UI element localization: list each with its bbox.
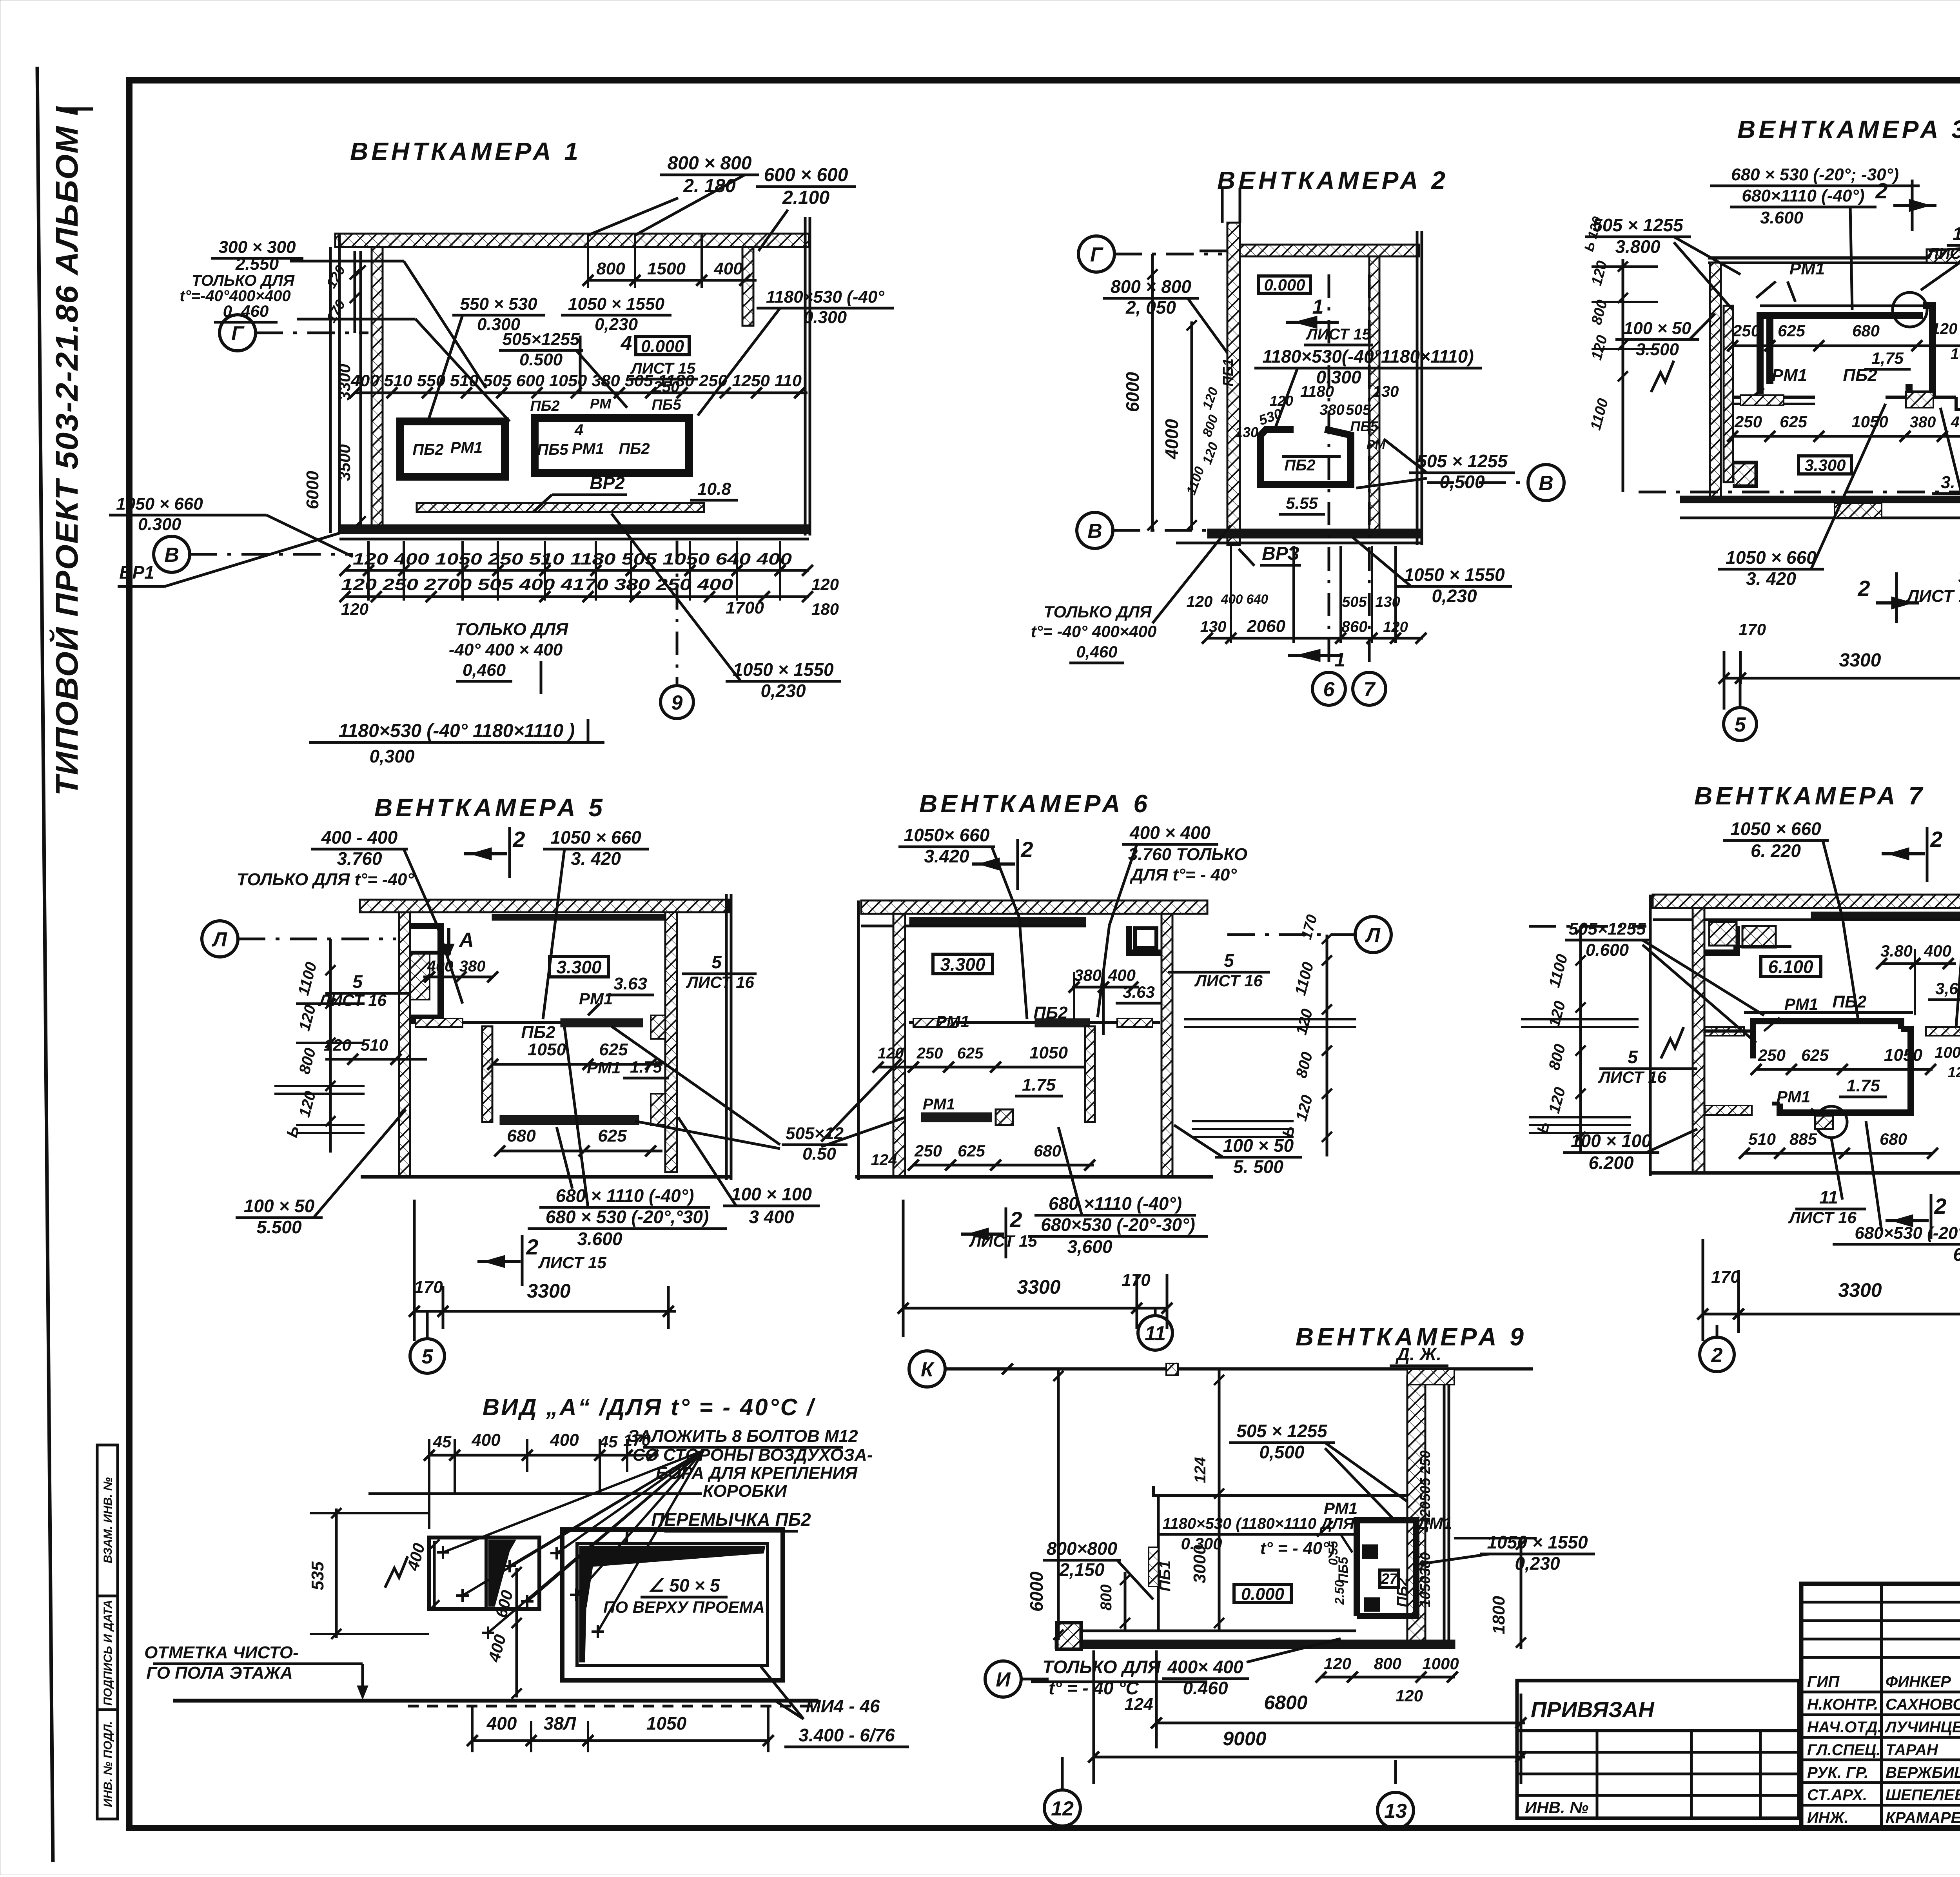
svg-text:3. 420: 3. 420 bbox=[571, 848, 621, 869]
vk9 floor band bbox=[1055, 1640, 1455, 1649]
svg-text:РМ1: РМ1 bbox=[1784, 995, 1818, 1013]
vk7 closet top-left bbox=[1704, 926, 1737, 953]
svg-text:ВЕНТКАМЕРА 7: ВЕНТКАМЕРА 7 bbox=[1694, 782, 1926, 810]
svg-text:ЛИСТ 16: ЛИСТ 16 bbox=[1788, 1208, 1857, 1227]
svg-text:1000: 1000 bbox=[1951, 345, 1960, 363]
svg-text:170: 170 bbox=[1711, 1267, 1740, 1287]
svg-text:3000: 3000 bbox=[1190, 1545, 1209, 1583]
svg-text:ПБ5: ПБ5 bbox=[537, 441, 568, 458]
svg-text:505: 505 bbox=[1342, 594, 1367, 610]
svg-text:1.75: 1.75 bbox=[1022, 1075, 1056, 1095]
svg-text:1050: 1050 bbox=[528, 1040, 566, 1059]
vk3 mid band bbox=[1733, 396, 1815, 399]
svg-text:3.63: 3.63 bbox=[613, 974, 647, 993]
vidA left square opening bbox=[429, 1538, 539, 1609]
svg-text:625: 625 bbox=[1801, 1046, 1829, 1064]
vk7 axis circle 2 bbox=[1702, 1314, 1704, 1325]
svg-text:1.75: 1.75 bbox=[1846, 1076, 1880, 1095]
svg-text:5.55: 5.55 bbox=[1286, 494, 1318, 512]
svg-text:ЛИСТ 15: ЛИСТ 15 bbox=[969, 1232, 1037, 1250]
svg-text:ПБ2: ПБ2 bbox=[1033, 1003, 1068, 1022]
svg-text:625: 625 bbox=[1780, 412, 1808, 431]
svg-text:1000: 1000 bbox=[1935, 1044, 1960, 1061]
vk1 top wall bbox=[335, 234, 809, 247]
svg-text:45: 45 bbox=[433, 1432, 452, 1451]
svg-text:12: 12 bbox=[1051, 1797, 1074, 1820]
svg-text:ГИП: ГИП bbox=[1807, 1673, 1840, 1690]
svg-text:2.100: 2.100 bbox=[782, 187, 829, 208]
vk3 left wall bbox=[1710, 263, 1721, 498]
svg-text:ПБ2: ПБ2 bbox=[1394, 1577, 1411, 1607]
vk9 level box bbox=[1234, 1585, 1291, 1603]
svg-text:3.760 ТОЛЬКО: 3.760 ТОЛЬКО bbox=[1128, 845, 1247, 864]
svg-text:3300: 3300 bbox=[1017, 1276, 1060, 1298]
svg-text:РМ1: РМ1 bbox=[579, 989, 613, 1008]
vk1 axis V bbox=[154, 536, 190, 572]
svg-text:ПБ1: ПБ1 bbox=[1220, 358, 1236, 386]
vk3 top wall hatch right bbox=[1927, 249, 1960, 263]
vk1 inner closet bbox=[400, 421, 505, 477]
svg-text:2: 2 bbox=[1875, 178, 1887, 203]
svg-text:124: 124 bbox=[1124, 1695, 1153, 1714]
svg-text:4: 4 bbox=[621, 332, 632, 355]
svg-text:ФИНКЕР: ФИНКЕР bbox=[1886, 1673, 1951, 1690]
svg-text:1180×530 (-40° 1180×1110 ): 1180×530 (-40° 1180×1110 ) bbox=[339, 721, 575, 741]
svg-text:380: 380 bbox=[1319, 402, 1344, 418]
svg-text:6.400: 6.400 bbox=[1953, 1244, 1960, 1265]
svg-text:0.500: 0.500 bbox=[519, 350, 563, 369]
svg-text:КОРОБКИ: КОРОБКИ bbox=[703, 1481, 787, 1501]
svg-text:2.50: 2.50 bbox=[1332, 1580, 1347, 1605]
svg-text:0,500: 0,500 bbox=[1439, 472, 1485, 492]
svg-text:РМ1: РМ1 bbox=[587, 1058, 621, 1077]
vk1 axis G bbox=[220, 315, 256, 351]
svg-text:ДЛЯ t°= - 40°: ДЛЯ t°= - 40° bbox=[1129, 865, 1237, 884]
svg-text:ТОЛЬКО ДЛЯ: ТОЛЬКО ДЛЯ bbox=[192, 272, 295, 289]
svg-text:680: 680 bbox=[1852, 321, 1880, 340]
svg-text:1180×530 (-40°: 1180×530 (-40° bbox=[766, 287, 884, 307]
svg-text:2: 2 bbox=[1930, 827, 1942, 851]
svg-text:5: 5 bbox=[1628, 1047, 1638, 1067]
svg-text:400× 400: 400× 400 bbox=[1167, 1657, 1243, 1677]
svg-text:ТИПОВОЙ ПРОЕКТ 503-2-21.86: ТИПОВОЙ ПРОЕКТ 503-2-21.86 АЛЬБОМ I bbox=[49, 106, 84, 796]
svg-text:120: 120 bbox=[811, 575, 839, 594]
svg-text:ВЕНТКАМЕРА 3: ВЕНТКАМЕРА 3 bbox=[1737, 115, 1960, 143]
svg-text:400: 400 bbox=[471, 1430, 501, 1450]
vk7 left wall bbox=[1693, 908, 1704, 1173]
svg-text:6.200: 6.200 bbox=[1588, 1153, 1634, 1173]
vk5 closet top-left bbox=[410, 926, 441, 1018]
svg-text:180: 180 bbox=[811, 600, 839, 618]
svg-text:0.000: 0.000 bbox=[641, 337, 684, 356]
svg-text:130: 130 bbox=[1235, 424, 1258, 440]
svg-text:3300: 3300 bbox=[1839, 650, 1881, 671]
svg-text:120: 120 bbox=[1324, 1654, 1351, 1673]
vidA fan leader lines bbox=[443, 1450, 704, 1552]
svg-text:680: 680 bbox=[507, 1126, 536, 1145]
svg-text:ЛИСТ 16: ЛИСТ 16 bbox=[686, 973, 754, 991]
svg-text:0.000: 0.000 bbox=[1241, 1585, 1285, 1604]
svg-text:400: 400 bbox=[1924, 942, 1951, 960]
svg-text:170: 170 bbox=[1739, 620, 1766, 639]
svg-text:505 × 1255: 505 × 1255 bbox=[1417, 451, 1508, 471]
svg-text:t° = - 40°): t° = - 40°) bbox=[1260, 1539, 1335, 1558]
svg-text:38Л: 38Л bbox=[544, 1713, 577, 1734]
svg-text:3300: 3300 bbox=[1838, 1279, 1882, 1301]
svg-text:800: 800 bbox=[596, 259, 625, 278]
vk7 left boundary bbox=[1649, 895, 1652, 1176]
svg-text:ЛИСТ 15: ЛИСТ 15 bbox=[538, 1253, 606, 1272]
svg-text:РМ1: РМ1 bbox=[1324, 1499, 1357, 1518]
svg-text:ВЕНТКАМЕРА 6: ВЕНТКАМЕРА 6 bbox=[919, 790, 1151, 818]
vk3 axis line and circle 8 bbox=[1639, 491, 1960, 494]
svg-text:505 × 1255: 505 × 1255 bbox=[1236, 1421, 1328, 1441]
svg-text:2: 2 bbox=[526, 1234, 538, 1259]
svg-text:ВЗАМ. ИНВ. №: ВЗАМ. ИНВ. № bbox=[102, 1477, 114, 1563]
svg-text:2,150: 2,150 bbox=[1059, 1559, 1105, 1580]
svg-text:4: 4 bbox=[574, 421, 583, 439]
svg-text:1050× 660: 1050× 660 bbox=[904, 825, 990, 845]
svg-text:1050 × 1550: 1050 × 1550 bbox=[1487, 1532, 1588, 1552]
svg-text:120 250 2700 505 400: 120 250 2700 505 400 4170 380 250 400 bbox=[341, 575, 733, 594]
vk5 right boundary bbox=[725, 894, 728, 1180]
svg-text:3.80: 3.80 bbox=[1880, 942, 1913, 960]
svg-text:ПБ2: ПБ2 bbox=[530, 398, 559, 414]
svg-text:-40° 400 × 400: -40° 400 × 400 bbox=[449, 640, 563, 659]
vk7 detail circle small bbox=[1816, 1106, 1847, 1138]
svg-text:625: 625 bbox=[598, 1126, 627, 1145]
svg-text:625: 625 bbox=[957, 1045, 984, 1062]
svg-text:ИНЖ.: ИНЖ. bbox=[1807, 1809, 1849, 1826]
svg-text:0,460: 0,460 bbox=[1076, 643, 1117, 661]
svg-text:510: 510 bbox=[1748, 1130, 1776, 1148]
vk3 small corner bbox=[1733, 463, 1756, 486]
svg-text:505×1255: 505×1255 bbox=[503, 330, 580, 349]
album I underline bbox=[63, 107, 93, 111]
svg-text:11: 11 bbox=[1145, 1322, 1166, 1345]
svg-text:t°= -40° 400×400: t°= -40° 400×400 bbox=[1031, 622, 1157, 641]
svg-text:2: 2 bbox=[1009, 1207, 1022, 1232]
svg-text:3.420: 3.420 bbox=[924, 846, 969, 866]
vk9 axis circle 12 bbox=[1061, 1757, 1064, 1790]
svg-text:2: 2 bbox=[1020, 837, 1033, 862]
svg-text:КРАМАРЕНКО: КРАМАРЕНКО bbox=[1886, 1809, 1960, 1826]
svg-text:ТОЛЬКО ДЛЯ: ТОЛЬКО ДЛЯ bbox=[1044, 603, 1152, 621]
vk7 level box bbox=[1761, 957, 1821, 977]
svg-text:625: 625 bbox=[599, 1040, 628, 1059]
vk6 bottom line bbox=[855, 1175, 1213, 1179]
svg-text:3 400: 3 400 bbox=[749, 1207, 794, 1227]
svg-text:400: 400 bbox=[486, 1713, 517, 1734]
vk6 level box bbox=[933, 954, 993, 974]
svg-text:400: 400 bbox=[1108, 966, 1136, 984]
svg-text:680 × 1110 (-40°): 680 × 1110 (-40°) bbox=[556, 1185, 694, 1206]
svg-text:250: 250 bbox=[914, 1142, 942, 1160]
svg-text:ВР2: ВР2 bbox=[590, 473, 625, 493]
svg-text:120: 120 bbox=[1270, 393, 1293, 409]
svg-text:3.800: 3.800 bbox=[1615, 236, 1661, 257]
vk5 right wall inner hatch bbox=[651, 1015, 665, 1039]
svg-text:0,300: 0,300 bbox=[369, 746, 415, 766]
svg-text:120: 120 bbox=[1947, 1064, 1960, 1081]
svg-text:5: 5 bbox=[1735, 713, 1746, 736]
privyazan table bbox=[1517, 1681, 1799, 1818]
svg-text:800 × 800: 800 × 800 bbox=[668, 153, 752, 174]
vk1 inner duct bbox=[535, 418, 689, 473]
svg-text:11: 11 bbox=[1953, 223, 1960, 244]
vk1 left wall bbox=[372, 247, 383, 528]
vk2 top wall bbox=[1227, 245, 1419, 256]
svg-text:505: 505 bbox=[1417, 1478, 1433, 1501]
svg-text:400 × 400: 400 × 400 bbox=[1129, 822, 1210, 843]
svg-text:РМ: РМ bbox=[590, 396, 612, 412]
vk3 right step wall bbox=[1956, 397, 1960, 486]
svg-text:1050: 1050 bbox=[646, 1713, 687, 1734]
svg-text:120: 120 bbox=[341, 600, 368, 618]
svg-text:3.600: 3.600 bbox=[577, 1229, 622, 1249]
vk5 partition bbox=[410, 1021, 643, 1024]
svg-text:ЛИСТ 15: ЛИСТ 15 bbox=[630, 360, 695, 377]
svg-text:3300: 3300 bbox=[335, 364, 354, 400]
svg-text:800: 800 bbox=[1098, 1585, 1115, 1611]
svg-text:2: 2 bbox=[512, 827, 525, 851]
svg-text:45: 45 bbox=[599, 1432, 618, 1451]
title block outer bbox=[1801, 1584, 1960, 1828]
svg-text:1050 × 660: 1050 × 660 bbox=[1726, 547, 1817, 568]
svg-text:1050 × 660: 1050 × 660 bbox=[1730, 819, 1821, 839]
vk7 partition stubs bbox=[1705, 1027, 1744, 1036]
svg-text:885: 885 bbox=[1789, 1130, 1817, 1148]
vk1 bottom floor band bbox=[339, 525, 809, 534]
svg-text:ПЕРЕМЫЧКА ПБ2: ПЕРЕМЫЧКА ПБ2 bbox=[651, 1509, 811, 1530]
svg-text:ТОЛЬКО ДЛЯ: ТОЛЬКО ДЛЯ bbox=[455, 620, 568, 639]
svg-text:ПБ2: ПБ2 bbox=[1843, 366, 1877, 385]
svg-text:3.300: 3.300 bbox=[940, 954, 985, 975]
svg-text:ЛИСТ 15: ЛИСТ 15 bbox=[1906, 586, 1960, 606]
svg-text:1000: 1000 bbox=[1422, 1654, 1459, 1673]
svg-text:1050 × 1550: 1050 × 1550 bbox=[1404, 565, 1505, 585]
svg-text:В: В bbox=[164, 544, 179, 566]
svg-text:11: 11 bbox=[1819, 1187, 1838, 1207]
svg-text:10.8: 10.8 bbox=[697, 479, 731, 499]
svg-text:ПБ2: ПБ2 bbox=[412, 441, 443, 458]
svg-text:ПО ВЕРХУ ПРОЕМА: ПО ВЕРХУ ПРОЕМА bbox=[603, 1598, 765, 1616]
svg-text:3.300: 3.300 bbox=[1804, 456, 1846, 474]
svg-text:Д. Ж.: Д. Ж. bbox=[1395, 1344, 1441, 1364]
svg-text:ВР1: ВР1 bbox=[119, 562, 154, 583]
svg-text:1050: 1050 bbox=[1417, 1576, 1433, 1607]
svg-text:625: 625 bbox=[958, 1142, 985, 1160]
vk3 axis circle 5 bbox=[1739, 678, 1742, 707]
svg-text:1,75: 1,75 bbox=[1871, 349, 1904, 367]
svg-text:1800: 1800 bbox=[1489, 1596, 1508, 1634]
svg-text:0.300: 0.300 bbox=[138, 515, 181, 534]
svg-text:Г: Г bbox=[1090, 243, 1103, 266]
svg-text:ЛИСТ 16: ЛИСТ 16 bbox=[1598, 1068, 1666, 1086]
svg-text:680×1110 (-40°): 680×1110 (-40°) bbox=[1742, 186, 1864, 205]
svg-text:РМ1: РМ1 bbox=[1772, 366, 1807, 385]
svg-text:6000: 6000 bbox=[1026, 1571, 1047, 1612]
svg-text:380: 380 bbox=[459, 958, 486, 975]
svg-text:3300: 3300 bbox=[527, 1280, 570, 1302]
svg-text:ГО ПОЛА ЭТАЖА: ГО ПОЛА ЭТАЖА bbox=[146, 1663, 293, 1683]
svg-text:0,460: 0,460 bbox=[463, 661, 506, 680]
svg-text:1500: 1500 bbox=[647, 259, 686, 278]
svg-text:СО СТОРОНЫ ВОЗДУХОЗА-: СО СТОРОНЫ ВОЗДУХОЗА- bbox=[633, 1445, 873, 1465]
svg-text:120 400 1050 250 510 11: 120 400 1050 250 510 1180 505 1050 640 4… bbox=[353, 550, 792, 568]
svg-text:2.550: 2.550 bbox=[235, 254, 279, 274]
left attribute column box bbox=[97, 1445, 118, 1819]
vk5 duct wall vertical bbox=[482, 1026, 492, 1122]
svg-text:Н.КОНТР.: Н.КОНТР. bbox=[1807, 1696, 1878, 1713]
vk5 bottom line bbox=[361, 1175, 731, 1179]
title block signature grid bbox=[1880, 1584, 1883, 1828]
svg-text:И: И bbox=[996, 1668, 1011, 1691]
svg-text:0.460: 0.460 bbox=[1183, 1678, 1228, 1698]
svg-text:120: 120 bbox=[1396, 1686, 1423, 1705]
svg-text:ОТМЕТКА ЧИСТО-: ОТМЕТКА ЧИСТО- bbox=[144, 1643, 299, 1662]
svg-text:3.300: 3.300 bbox=[556, 957, 602, 977]
svg-text:В: В bbox=[1087, 520, 1102, 543]
svg-text:250: 250 bbox=[1417, 1450, 1433, 1474]
svg-text:9000: 9000 bbox=[1223, 1728, 1266, 1750]
svg-text:1180×530(-40°1180×1110): 1180×530(-40°1180×1110) bbox=[1262, 346, 1474, 367]
vk1 right boundary bbox=[804, 217, 807, 536]
vk5 duct bottom slab bbox=[500, 1115, 639, 1125]
svg-text:ШЕПЕЛЕВА: ШЕПЕЛЕВА bbox=[1886, 1786, 1960, 1804]
svg-text:6.100: 6.100 bbox=[1768, 957, 1813, 977]
svg-text:2, 050: 2, 050 bbox=[1125, 297, 1176, 318]
svg-text:2: 2 bbox=[1934, 1194, 1946, 1218]
svg-text:ИНВ. №: ИНВ. № bbox=[1525, 1798, 1588, 1817]
svg-text:ТОЛЬКО ДЛЯ t°= -40°: ТОЛЬКО ДЛЯ t°= -40° bbox=[237, 870, 414, 889]
svg-text:9: 9 bbox=[671, 692, 683, 714]
svg-text:5: 5 bbox=[352, 971, 363, 992]
vk5 top wall bbox=[360, 900, 729, 912]
svg-text:100 × 50: 100 × 50 bbox=[1624, 319, 1691, 338]
svg-text:400 640: 400 640 bbox=[1221, 592, 1268, 607]
svg-text:ПБ2: ПБ2 bbox=[1832, 992, 1867, 1011]
vk2 dim extension lines bbox=[1230, 546, 1232, 643]
vk9 axis circle 13 bbox=[1377, 1792, 1414, 1828]
vk3 inner duct П bbox=[1760, 316, 1770, 394]
svg-text:ВЕНТКАМЕРА 5: ВЕНТКАМЕРА 5 bbox=[374, 793, 606, 822]
svg-text:0,230: 0,230 bbox=[1432, 586, 1477, 606]
svg-text:РМ1: РМ1 bbox=[1789, 259, 1825, 278]
vk5 right wall bbox=[665, 912, 677, 1172]
svg-text:ВЕНТКАМЕРА 1: ВЕНТКАМЕРА 1 bbox=[350, 137, 581, 165]
svg-text:380: 380 bbox=[1910, 414, 1936, 431]
svg-text:К: К bbox=[921, 1358, 935, 1381]
svg-text:3500: 3500 bbox=[335, 444, 354, 481]
svg-text:1050: 1050 bbox=[1029, 1043, 1068, 1062]
vk7 duct ring bbox=[1753, 1021, 1901, 1058]
svg-text:ВЕНТКАМЕРА 2: ВЕНТКАМЕРА 2 bbox=[1217, 166, 1448, 194]
vk2 right wall bbox=[1369, 256, 1379, 536]
vk5 left wall bbox=[399, 912, 410, 1176]
vk9 axis I circle bbox=[985, 1661, 1021, 1697]
vk2 bottom wall bbox=[1207, 529, 1423, 538]
svg-text:ПБ2: ПБ2 bbox=[1284, 457, 1315, 474]
svg-text:3. 420: 3. 420 bbox=[1746, 568, 1796, 589]
vk9 room top edge bbox=[1153, 1486, 1407, 1496]
svg-text:680×530 (-20°,-30°) 680×1100 (: 680×530 (-20°,-30°) 680×1100 (-40°) bbox=[1855, 1223, 1960, 1243]
svg-text:ПБ5: ПБ5 bbox=[652, 397, 681, 413]
vk1 axis circle 9 bbox=[676, 541, 679, 684]
svg-text:НАЧ.ОТД.: НАЧ.ОТД. bbox=[1807, 1719, 1882, 1736]
vk6 left wall bbox=[893, 914, 905, 1176]
svg-text:Л: Л bbox=[1365, 924, 1381, 947]
svg-text:ТАРАН: ТАРАН bbox=[1886, 1741, 1938, 1759]
svg-text:800 × 800: 800 × 800 bbox=[1111, 276, 1191, 297]
svg-text:130: 130 bbox=[1200, 618, 1227, 635]
svg-text:3.760 (ТОЛЬКО: 3.760 (ТОЛЬКО bbox=[1958, 567, 1960, 586]
svg-text:ЛИСТ 16: ЛИСТ 16 bbox=[1194, 971, 1263, 990]
svg-text:САХНОВСКАЯ: САХНОВСКАЯ bbox=[1886, 1696, 1960, 1713]
vk9 inner duct bbox=[1357, 1520, 1416, 1616]
vk7 top wall bbox=[1653, 895, 1960, 908]
svg-text:0.300: 0.300 bbox=[804, 308, 847, 327]
vk6 left boundary bbox=[857, 900, 860, 1180]
svg-text:5: 5 bbox=[422, 1345, 434, 1368]
svg-text:1050: 1050 bbox=[1851, 412, 1888, 431]
svg-text:3,600: 3,600 bbox=[1067, 1236, 1112, 1257]
svg-text:ПБ1: ПБ1 bbox=[1156, 1560, 1174, 1591]
paper left edge bbox=[37, 67, 53, 1862]
svg-text:505×1255: 505×1255 bbox=[1569, 919, 1646, 938]
vk7 bottom line bbox=[1649, 1171, 1960, 1175]
vk6 label 505x1255 left bbox=[821, 1058, 902, 1142]
svg-text:680 × 530 (-20°,°30): 680 × 530 (-20°,°30) bbox=[546, 1207, 709, 1227]
svg-text:Л: Л bbox=[211, 928, 227, 951]
svg-text:РМ1: РМ1 bbox=[923, 1096, 955, 1113]
vk2 axis V right bbox=[1528, 465, 1564, 501]
svg-text:505: 505 bbox=[1346, 402, 1371, 418]
svg-text:505 × 1255: 505 × 1255 bbox=[1592, 215, 1684, 235]
svg-text:5: 5 bbox=[1224, 950, 1234, 971]
svg-text:400 - 400: 400 - 400 bbox=[321, 827, 398, 848]
vk9 floor left hook bbox=[1057, 1623, 1081, 1649]
svg-text:ПБ2: ПБ2 bbox=[619, 440, 650, 457]
svg-text:170: 170 bbox=[414, 1278, 443, 1297]
svg-text:800: 800 bbox=[1374, 1654, 1401, 1673]
svg-text:13: 13 bbox=[1384, 1800, 1407, 1823]
vk5 level box bbox=[550, 957, 608, 977]
svg-text:120: 120 bbox=[1187, 593, 1213, 610]
svg-text:680: 680 bbox=[1034, 1142, 1061, 1160]
svg-text:ИНВ. № ПОДЛ.: ИНВ. № ПОДЛ. bbox=[102, 1721, 114, 1807]
vk6 duct bottom bbox=[921, 1113, 992, 1122]
svg-text:100 × 50: 100 × 50 bbox=[244, 1196, 315, 1216]
svg-text:680×530 (-20°-30°): 680×530 (-20°-30°) bbox=[1041, 1214, 1195, 1235]
svg-text:7: 7 bbox=[1364, 678, 1376, 701]
svg-text:600 × 600: 600 × 600 bbox=[764, 165, 848, 185]
svg-text:6. 220: 6. 220 bbox=[1751, 840, 1801, 861]
svg-text:3.500: 3.500 bbox=[1636, 340, 1679, 359]
vk3 bottom floor bbox=[1680, 496, 1960, 503]
svg-text:ВИД „А“ /ДЛЯ t° = - 40°C /: ВИД „А“ /ДЛЯ t° = - 40°C / bbox=[483, 1394, 816, 1420]
vk1 left leader lines bbox=[290, 260, 404, 263]
svg-text:680 × 530 (-20°; -30°): 680 × 530 (-20°; -30°) bbox=[1731, 165, 1899, 184]
svg-text:3.600: 3.600 bbox=[1760, 208, 1804, 227]
svg-text:3.760: 3.760 bbox=[337, 848, 382, 869]
svg-text:0.000: 0.000 bbox=[1264, 276, 1305, 294]
svg-text:ЛУЧИНЦЕВ: ЛУЧИНЦЕВ bbox=[1884, 1719, 1960, 1736]
vk6 right wall bbox=[1161, 914, 1172, 1176]
svg-text:ПБ5: ПБ5 bbox=[1350, 418, 1378, 434]
vidA right opening bbox=[562, 1530, 783, 1680]
svg-text:400 510 550 510 505 600 1: 400 510 550 510 505 600 1050 380 505 118… bbox=[350, 371, 802, 390]
